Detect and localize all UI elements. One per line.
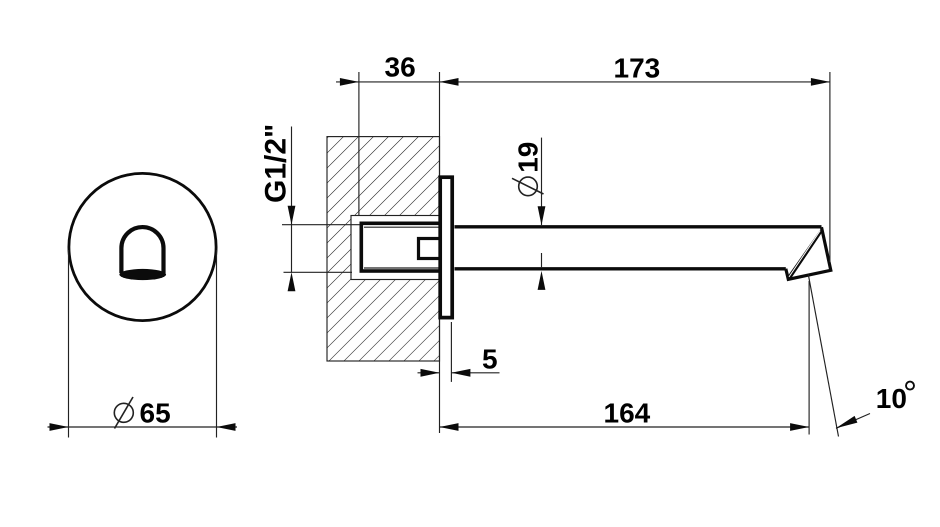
svg-text:G1/2": G1/2" xyxy=(260,124,293,203)
spout tube top line xyxy=(455,225,822,228)
svg-text:173: 173 xyxy=(614,53,661,84)
svg-text:36: 36 xyxy=(385,52,416,83)
10 deg leader arrow xyxy=(836,414,870,429)
dimension D19 xyxy=(512,138,545,290)
escutcheon plate (side view) xyxy=(440,177,452,317)
spout tube bottom line xyxy=(455,267,786,270)
svg-text:10: 10 xyxy=(876,383,907,414)
dimension 164 xyxy=(440,398,810,431)
spout tip (10 deg cut) xyxy=(786,227,831,279)
spout mouth ellipse (front view) xyxy=(119,269,166,280)
wall face line / shared extension line xyxy=(439,72,441,433)
dimension G1/2 xyxy=(260,124,296,292)
extension line right of D65 xyxy=(216,250,218,438)
dimension line D65 xyxy=(48,423,238,431)
angle text 10 deg xyxy=(876,382,914,414)
dimension 36 xyxy=(336,52,440,86)
svg-text:5: 5 xyxy=(482,344,498,375)
spout nose front contour (arch) xyxy=(121,227,163,273)
extension line at 36 left (fitting rear) xyxy=(358,72,360,216)
dimension text 65 xyxy=(140,397,171,428)
G1/2 extension lines xyxy=(282,225,360,273)
10 deg reference line xyxy=(808,275,838,437)
dimension 5 xyxy=(418,344,500,377)
svg-text:19: 19 xyxy=(513,142,544,173)
extension line 173 right (spout tip) xyxy=(829,72,831,262)
in-wall union body (G1/2 fitting) xyxy=(361,223,442,271)
wall section (hatched) xyxy=(327,137,440,361)
recess in wall xyxy=(351,216,440,280)
extension line for 5 (plate face) xyxy=(450,322,452,382)
dimension 173 xyxy=(440,53,830,86)
svg-text:65: 65 xyxy=(140,397,171,428)
extension line left of D65 xyxy=(68,250,70,438)
inner socket rectangle xyxy=(419,239,442,259)
diameter symbol for 65 xyxy=(114,397,133,429)
front view circle (escutcheon face, D65) xyxy=(69,173,216,320)
svg-text:164: 164 xyxy=(604,398,651,429)
extension line 164 right xyxy=(808,281,810,435)
